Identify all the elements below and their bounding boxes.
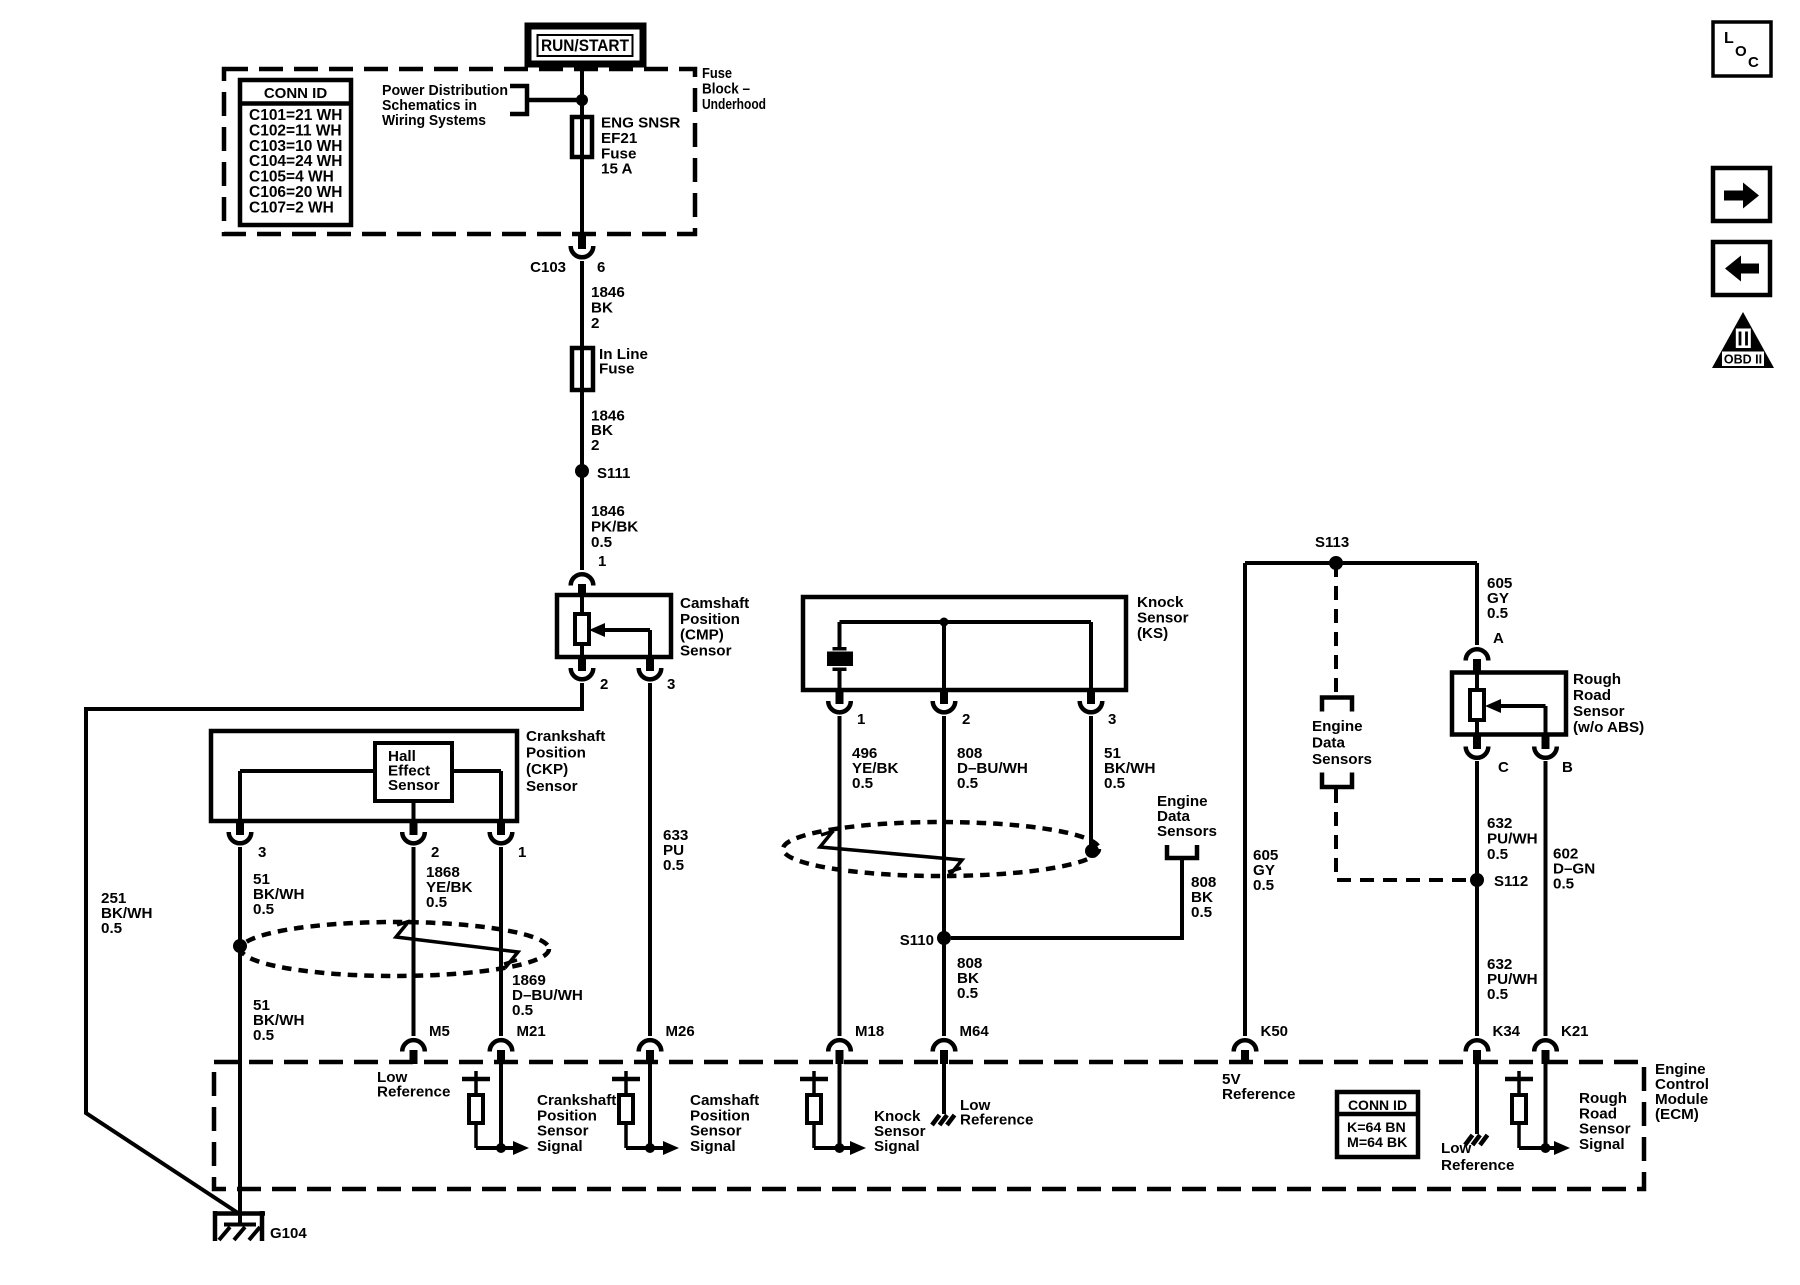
label 602 D-GN 0.5	[1553, 846, 1595, 893]
off-page bracket bottom (right)	[1322, 773, 1352, 788]
svg-text:0.5: 0.5	[1104, 775, 1126, 792]
label 808 BK 0.5 (branch)	[1191, 874, 1216, 921]
fuse ENG SNSR EF21	[572, 100, 680, 178]
twisted-pair ellipse KS	[783, 822, 1099, 876]
splice S110	[900, 931, 951, 949]
resistor knock signal	[800, 1071, 828, 1148]
svg-text:2: 2	[591, 315, 599, 332]
icon LOC box	[1713, 22, 1771, 76]
wire RRS C to K34	[1475, 761, 1479, 1036]
label 51 BK/WH 0.5 (upper)	[253, 871, 304, 918]
dashed wire Engine Data Sensors to S112	[1336, 789, 1468, 880]
wire S111 to CMP sensor	[580, 471, 584, 570]
CONN ID table (ECM)	[1337, 1092, 1418, 1157]
svg-text:C: C	[1748, 54, 1759, 71]
svg-text:Road: Road	[1573, 687, 1611, 704]
svg-text:S110: S110	[900, 932, 934, 949]
svg-text:0.5: 0.5	[101, 920, 123, 937]
svg-text:Reference: Reference	[960, 1112, 1033, 1129]
label 496 YE/BK 0.5	[852, 745, 898, 792]
svg-text:1: 1	[598, 553, 606, 570]
connector CMP pin 2	[571, 657, 609, 693]
label Crankshaft Position (CKP) Sensor	[526, 728, 605, 795]
RRS arrow	[1485, 699, 1501, 713]
camshaft signal arrow line	[626, 1141, 679, 1155]
connector CMP pin 3	[639, 657, 676, 693]
svg-text:Fuse: Fuse	[702, 65, 732, 82]
svg-text:L: L	[1724, 30, 1734, 47]
svg-text:C: C	[1498, 759, 1509, 776]
wire CKP pin 3 to G104	[238, 847, 242, 1226]
svg-text:Engine: Engine	[1312, 718, 1363, 735]
svg-text:Fuse: Fuse	[599, 361, 634, 378]
svg-text:M21: M21	[517, 1023, 546, 1040]
svg-text:3: 3	[667, 676, 675, 693]
svg-text:M26: M26	[666, 1023, 695, 1040]
label 1846 BK 2 (lower)	[591, 408, 625, 454]
connector M5 at ECM	[402, 1023, 450, 1064]
svg-text:Sensor: Sensor	[1573, 703, 1625, 720]
wire CKP pin 1 to M21	[499, 847, 503, 1036]
label Rough Road Sensor Signal	[1579, 1090, 1631, 1153]
svg-text:K21: K21	[1561, 1023, 1589, 1040]
knock signal arrow line	[814, 1141, 866, 1155]
svg-text:(CKP): (CKP)	[526, 761, 568, 778]
svg-text:K34: K34	[1493, 1023, 1521, 1040]
wire RRS B to K21	[1544, 761, 1548, 1036]
svg-text:K50: K50	[1261, 1023, 1289, 1040]
svg-text:Signal: Signal	[1579, 1136, 1625, 1153]
twisted-pair ellipse CKP	[241, 922, 549, 976]
knock sensor KS box	[803, 597, 1126, 690]
rough road signal arrow line	[1519, 1141, 1570, 1155]
note Power Distribution Schematics	[382, 82, 508, 129]
svg-text:M64: M64	[960, 1023, 990, 1040]
label 808 BK 0.5 (lower)	[957, 955, 982, 1002]
svg-text:Position: Position	[526, 745, 586, 762]
wire KS pin 1 to M18	[838, 716, 842, 1036]
resistor camshaft signal	[612, 1071, 640, 1148]
splice dot on CKP ground wire	[233, 939, 247, 953]
label Low Reference (M64)	[960, 1097, 1033, 1129]
label 1846 PK/BK 0.5	[591, 503, 638, 551]
svg-text:RUN/START: RUN/START	[541, 36, 630, 55]
rough road sensor box	[1452, 673, 1566, 735]
svg-text:0.5: 0.5	[253, 1027, 275, 1044]
twist symbol KS	[820, 831, 962, 876]
svg-text:0.5: 0.5	[1487, 986, 1509, 1003]
wire K21 into ECM	[1544, 1064, 1548, 1148]
svg-text:0.5: 0.5	[1487, 605, 1509, 622]
svg-text:Rough: Rough	[1573, 671, 1621, 688]
resistor rough road signal	[1505, 1071, 1533, 1148]
connector KS pin 2	[933, 690, 971, 728]
connector CKP pin 2	[402, 821, 439, 861]
label 51 BK/WH 0.5 (knock)	[1104, 745, 1155, 792]
svg-text:Sensor: Sensor	[388, 777, 440, 794]
wire CKP pin 2 to M5	[412, 847, 416, 1036]
wire C103 to in-line fuse	[580, 261, 584, 348]
label Engine Data Sensors (right)	[1312, 718, 1372, 768]
svg-text:S111: S111	[597, 465, 630, 482]
ground symbol at K34	[1465, 1135, 1488, 1145]
connector M64 at ECM	[933, 1023, 990, 1064]
connector RRS pin B	[1534, 734, 1573, 776]
svg-text:2: 2	[431, 844, 439, 861]
connector CKP pin 3	[229, 821, 267, 861]
label 5V Reference	[1222, 1071, 1295, 1103]
wire KS pin 2 to S110	[942, 716, 946, 938]
label Engine Data Sensors (left)	[1157, 793, 1217, 840]
connector CMP pin 1	[571, 574, 594, 596]
svg-text:CONN ID: CONN ID	[1348, 1097, 1407, 1113]
label Knock Sensor Signal	[874, 1108, 926, 1155]
svg-text:Sensor: Sensor	[1137, 610, 1189, 627]
svg-text:2: 2	[591, 437, 599, 454]
crankshaft position sensor CKP box	[211, 731, 517, 821]
svg-text:M5: M5	[429, 1023, 450, 1040]
connector RRS pin C	[1466, 734, 1509, 776]
svg-text:Sensor: Sensor	[526, 778, 578, 795]
svg-text:Block –: Block –	[702, 81, 750, 98]
svg-text:0.5: 0.5	[852, 775, 874, 792]
wire 5V reference bus	[1245, 563, 1477, 1036]
wire RUN/START to junction	[580, 64, 584, 100]
svg-text:C107=2 WH: C107=2 WH	[249, 199, 334, 216]
label 605 GY 0.5 (right)	[1487, 575, 1513, 622]
wire fuse to C103	[580, 157, 584, 234]
engine control module dashed box	[214, 1062, 1644, 1189]
svg-text:(ECM): (ECM)	[1655, 1106, 1699, 1123]
svg-text:Sensors: Sensors	[1312, 751, 1372, 768]
svg-text:1: 1	[518, 844, 526, 861]
svg-text:0.5: 0.5	[1553, 876, 1575, 893]
label 51 BK/WH 0.5 (lower)	[253, 997, 304, 1044]
svg-text:M18: M18	[855, 1023, 884, 1040]
connector M21 at ECM	[490, 1023, 546, 1064]
svg-text:Reference: Reference	[1441, 1157, 1514, 1174]
label Knock Sensor (KS)	[1137, 594, 1189, 642]
wire M18 into ECM	[838, 1064, 842, 1148]
connector KS pin 3	[1080, 690, 1117, 728]
svg-text:Sensor: Sensor	[680, 642, 732, 659]
svg-text:A: A	[1493, 630, 1504, 647]
crankshaft signal arrow line	[476, 1141, 529, 1155]
svg-text:0.5: 0.5	[957, 775, 979, 792]
label Rough Road Sensor (w/o ABS)	[1573, 671, 1644, 736]
svg-text:0.5: 0.5	[253, 901, 275, 918]
wire S110 to Engine Data Sensors	[951, 860, 1182, 938]
svg-text:(KS): (KS)	[1137, 625, 1168, 642]
label 632 PU/WH 0.5 (lower)	[1487, 956, 1538, 1003]
svg-text:Position: Position	[680, 611, 740, 628]
svg-text:C103: C103	[530, 259, 566, 276]
connector CKP pin 1	[490, 821, 527, 861]
connector K50 at ECM	[1234, 1023, 1288, 1064]
icon arrow left box	[1713, 242, 1770, 295]
svg-text:0.5: 0.5	[1191, 904, 1213, 921]
connector K21 at ECM	[1534, 1023, 1588, 1064]
svg-text:Reference: Reference	[1222, 1086, 1295, 1103]
svg-text:S112: S112	[1494, 873, 1528, 890]
wire M21 into ECM	[499, 1064, 503, 1148]
svg-text:CONN ID: CONN ID	[264, 85, 328, 102]
svg-text:(CMP): (CMP)	[680, 627, 724, 644]
label Camshaft Position (CMP) Sensor	[680, 595, 749, 659]
svg-text:2: 2	[600, 676, 608, 693]
connector K34 at ECM	[1466, 1023, 1521, 1064]
svg-text:0.5: 0.5	[957, 985, 979, 1002]
ground symbol at M64	[932, 1115, 955, 1125]
label Low Reference (K34)	[1441, 1140, 1514, 1174]
svg-text:OBD II: OBD II	[1724, 353, 1762, 367]
wire K34 into ECM	[1475, 1064, 1479, 1134]
fuse block underhood dashed box	[224, 69, 695, 234]
label A	[1493, 630, 1504, 647]
pin 1 label CMP	[598, 553, 606, 570]
wire S110 to M64	[942, 938, 946, 1036]
resistor crankshaft signal	[462, 1071, 490, 1148]
CONN ID table (fuse block)	[240, 80, 351, 225]
svg-text:M=64 BK: M=64 BK	[1347, 1135, 1408, 1151]
svg-text:S113: S113	[1315, 534, 1349, 551]
connector M18 at ECM	[828, 1023, 884, 1064]
connector RRS pin A	[1466, 649, 1489, 673]
svg-text:Signal: Signal	[537, 1138, 583, 1155]
label 1869 D-BU/WH 0.5	[512, 972, 583, 1019]
svg-text:15 A: 15 A	[601, 161, 633, 178]
svg-text:Wiring Systems: Wiring Systems	[382, 112, 486, 129]
svg-text:0.5: 0.5	[426, 894, 448, 911]
label Crankshaft Position Sensor Signal	[537, 1092, 616, 1155]
splice S112	[1470, 873, 1528, 890]
svg-text:Underhood: Underhood	[702, 96, 766, 113]
svg-text:O: O	[1735, 43, 1747, 60]
svg-text:Crankshaft: Crankshaft	[526, 728, 605, 745]
splice S113	[1315, 534, 1349, 570]
wire CMP pin 2 to ground route	[86, 683, 582, 1213]
wire M64 into ECM	[942, 1064, 946, 1114]
svg-text:B: B	[1562, 759, 1573, 776]
connector C103 pin 6	[530, 232, 605, 276]
wire in-line fuse to S111	[580, 390, 584, 471]
svg-text:3: 3	[1108, 711, 1116, 728]
camshaft position sensor CMP box	[557, 595, 671, 657]
in-line fuse	[572, 346, 648, 390]
svg-text:6: 6	[597, 259, 605, 276]
ground G104 symbol	[213, 1211, 307, 1242]
off-page bracket top (right)	[1322, 698, 1352, 712]
svg-text:1: 1	[857, 711, 865, 728]
label 808 D-BU/WH 0.5	[957, 745, 1028, 792]
svg-text:0.5: 0.5	[1487, 846, 1509, 863]
junction dot at fuse feed	[576, 94, 588, 106]
svg-text:K=64 BN: K=64 BN	[1347, 1120, 1406, 1136]
svg-text:0.5: 0.5	[512, 1002, 534, 1019]
svg-text:Signal: Signal	[690, 1138, 736, 1155]
connector M26 at ECM	[639, 1023, 695, 1064]
label 1868 YE/BK 0.5	[426, 864, 472, 911]
svg-text:Knock: Knock	[1137, 594, 1184, 611]
svg-text:Reference: Reference	[377, 1084, 450, 1101]
CMP arrow	[589, 623, 605, 637]
svg-text:2: 2	[962, 711, 970, 728]
label Fuse Block Underhood	[702, 65, 766, 113]
label 251 BK/WH 0.5	[101, 890, 152, 937]
splice dot KS shield	[1085, 844, 1099, 858]
dashed wire S113 to Engine Data Sensors	[1334, 563, 1338, 698]
twist symbol CKP	[396, 921, 518, 968]
icon arrow right box	[1713, 168, 1770, 221]
wire M26 into ECM	[648, 1064, 652, 1148]
svg-text:3: 3	[258, 844, 266, 861]
svg-text:Data: Data	[1312, 735, 1345, 752]
label 633 PU 0.5	[663, 827, 688, 874]
icon OBD II triangle	[1712, 312, 1774, 368]
svg-text:0.5: 0.5	[591, 534, 613, 551]
label 1846 BK 2 (upper)	[591, 284, 625, 332]
bracket from note to wire	[510, 86, 578, 114]
svg-text:0.5: 0.5	[663, 857, 685, 874]
splice S111	[575, 464, 630, 482]
label Low Reference (M5)	[377, 1069, 450, 1101]
off-page bracket (left)	[1167, 845, 1197, 858]
label Camshaft Position Sensor Signal	[690, 1092, 759, 1155]
svg-text:Signal: Signal	[874, 1138, 920, 1155]
svg-text:Camshaft: Camshaft	[680, 595, 749, 612]
svg-text:(w/o ABS): (w/o ABS)	[1573, 719, 1644, 736]
connector KS pin 1	[828, 690, 865, 728]
wire KS pin 3 into harness	[1089, 716, 1093, 851]
svg-text:0.5: 0.5	[1253, 877, 1275, 894]
power feed RUN/START box	[528, 26, 643, 64]
svg-text:Low: Low	[1441, 1140, 1472, 1157]
label Engine Control Module (ECM)	[1655, 1061, 1709, 1123]
label 605 GY 0.5 (left)	[1253, 847, 1279, 894]
svg-text:Sensors: Sensors	[1157, 823, 1217, 840]
wire CMP pin 3 to M26	[648, 683, 652, 1036]
label 632 PU/WH 0.5 (upper)	[1487, 815, 1538, 863]
svg-text:G104: G104	[270, 1225, 307, 1242]
